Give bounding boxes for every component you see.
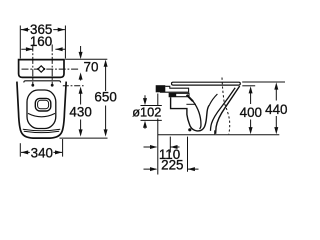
dim 400 ext line [242,85,255,87]
seat front arc [28,113,55,116]
pedestal arcs [23,129,60,131]
centerline vertical left [32,45,34,85]
dim 365 ext lines [19,26,21,59]
bowl outer front slant [216,86,240,134]
base front step [214,130,216,134]
tank top extension line (for 70 and 650) [65,58,107,60]
dim 365 line+arrows [21,29,65,31]
oe102 arrows [144,95,146,100]
bowl funnel left [193,101,201,129]
dim 70 top arrow [80,46,82,54]
dim 70 bottom arrow [80,77,82,81]
dim 440 ext line [242,81,285,83]
svg-text:160: 160 [30,34,52,49]
svg-text:650: 650 [94,90,116,105]
tank (cistern front view) [19,60,64,78]
opening inner [38,100,49,109]
dim 400 line [250,92,252,129]
hole dot left [31,84,34,87]
svg-text:225: 225 [161,158,183,173]
dim 340 ext lines [19,143,21,156]
drain center ext line [169,137,171,153]
seat ring [27,90,56,129]
svg-text:440: 440 [265,102,287,117]
opening outer [35,98,51,111]
cistern bar [160,86,189,92]
dim 110 line [144,146,180,148]
svg-text:400: 400 [240,105,262,120]
dim 430 line x=80.6 [80,92,82,131]
bowl inner front [211,88,236,131]
svg-text:340: 340 [31,146,53,161]
dim 440 line [275,88,277,129]
connector diagonal wedge [187,95,193,101]
svg-text:ø102: ø102 [132,105,161,120]
diamond symbol [38,66,44,72]
seat-top dash-dot reference (for 430) [63,85,84,87]
seat rod (lid profile) [172,82,241,85]
centerline horizontal through diamond [22,68,79,70]
dim 160 line+arrows [21,48,65,50]
svg-text:430: 430 [69,104,91,119]
seat hinge line (front) [24,81,61,83]
trap dot [188,128,191,131]
floor line right [158,134,279,136]
centerline vertical right [51,45,53,85]
dim 340 line+arrows [21,151,62,153]
dashed arc (hidden contour) [222,78,230,135]
hole dot right [51,84,54,87]
water line [186,103,196,105]
dim 650 line x=105.6 [105,65,107,131]
dim oe102 ref lines [141,105,162,107]
wall line [157,94,159,175]
bumper bar [169,93,189,96]
rim lip / funnel right [210,94,218,105]
floor line left view [60,137,108,139]
bowl outer left + trap [171,97,210,131]
svg-text:70: 70 [84,60,99,75]
bowl outer (front view) [17,82,66,139]
225 right ext line [187,137,189,172]
dim 225 line [144,168,199,170]
